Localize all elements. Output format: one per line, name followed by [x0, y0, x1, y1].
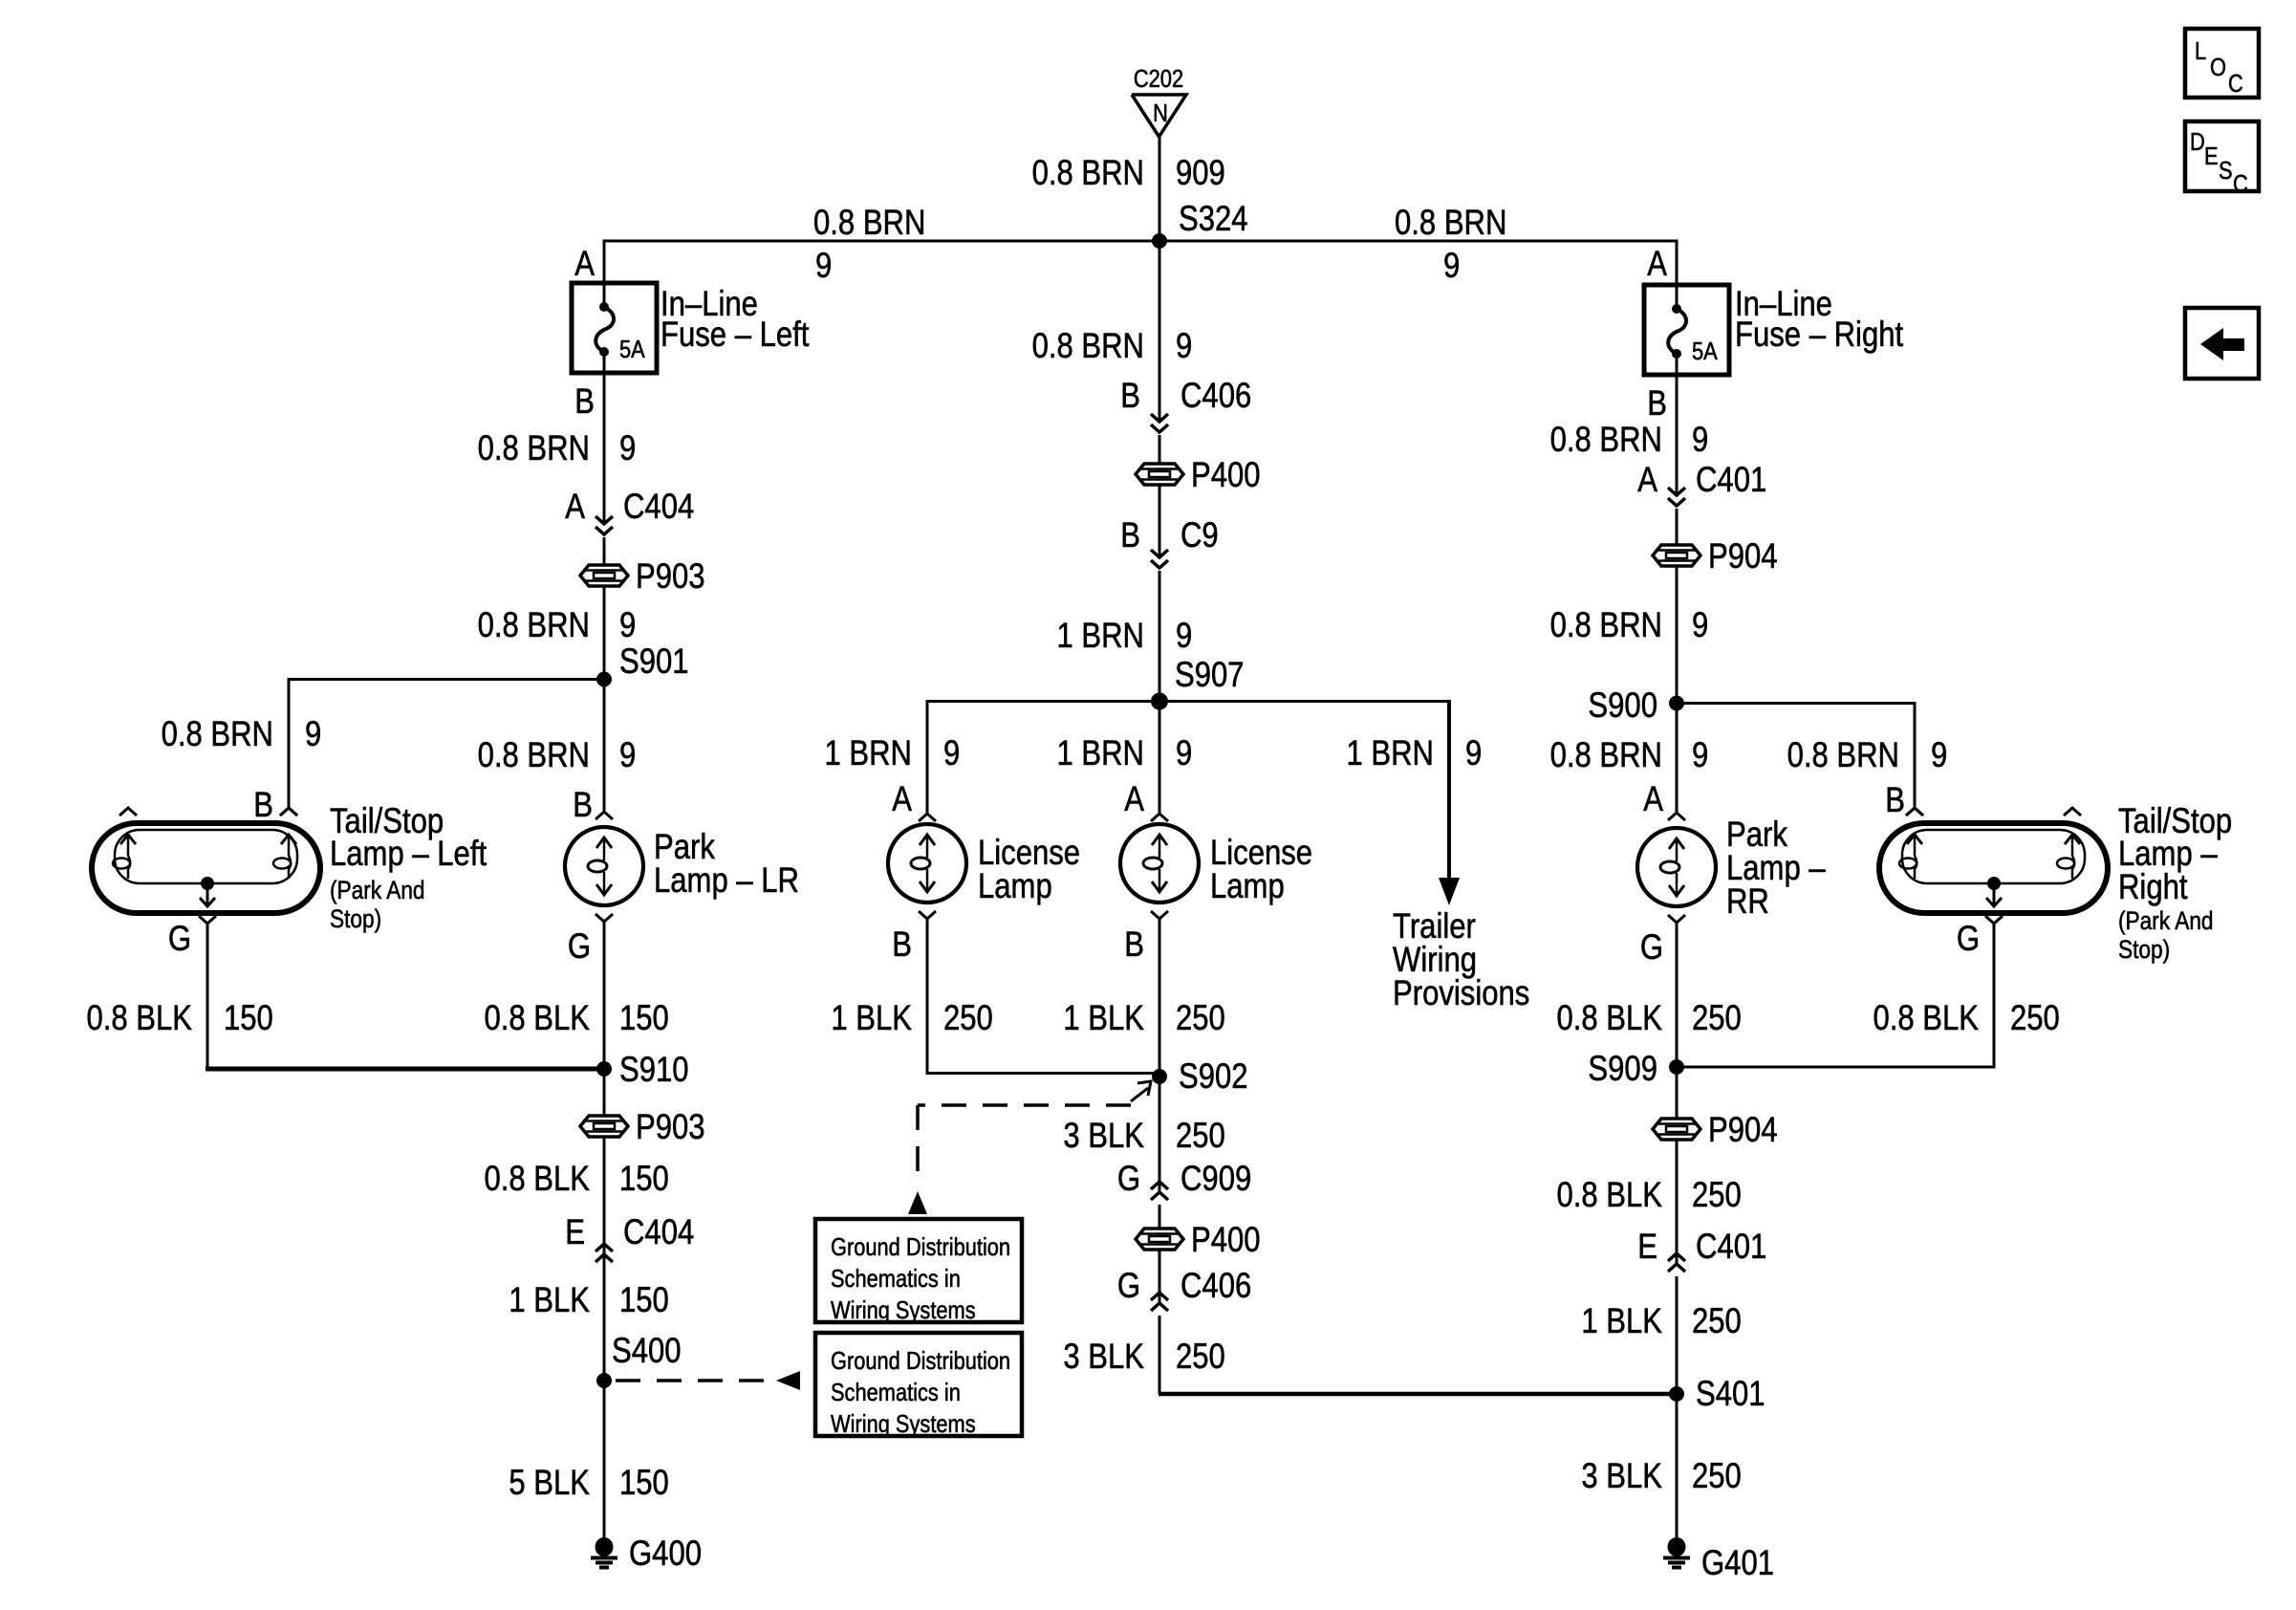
svg-text:1 BRN: 1 BRN: [1346, 734, 1434, 773]
pin B label (tail lamp left): [253, 786, 273, 825]
pin B label (park lamp LR): [573, 786, 593, 825]
connector C401 (down): [1668, 488, 1685, 506]
connector C401 pin A label: [1637, 461, 1766, 500]
wire label 1 BRN 9 (above S907): [1056, 617, 1192, 656]
svg-text:0.8 BRN: 0.8 BRN: [1032, 154, 1144, 193]
svg-text:C401: C401: [1696, 1228, 1766, 1267]
wire label 1 BLK 150: [509, 1281, 668, 1320]
legend box LOC: [2185, 29, 2259, 98]
svg-text:9: 9: [619, 736, 636, 775]
svg-text:C: C: [2228, 70, 2243, 98]
svg-text:C9: C9: [1180, 516, 1219, 555]
svg-text:P904: P904: [1708, 537, 1778, 577]
svg-text:250: 250: [2010, 999, 2060, 1038]
wire label 1 BLK 250 (license lamp 2): [1063, 999, 1224, 1038]
svg-text:250: 250: [1692, 1176, 1742, 1215]
wire bus to in-line fuse left: [603, 241, 606, 283]
svg-text:150: 150: [619, 999, 669, 1038]
svg-text:0.8 BRN: 0.8 BRN: [813, 204, 925, 243]
wire license lamp 2 to S902: [1159, 919, 1161, 1077]
grommet P904 (ground side): [1653, 1111, 1778, 1150]
svg-text:1 BLK: 1 BLK: [1581, 1302, 1662, 1341]
svg-text:A: A: [565, 488, 585, 527]
wire P903 to S901: [603, 586, 606, 681]
svg-text:0.8 BRN: 0.8 BRN: [1550, 736, 1662, 775]
in-line fuse left (5A): [572, 281, 657, 375]
wire label 1 BRN 9 (license lamp 1): [824, 734, 960, 773]
connector C404 pin E label: [565, 1213, 694, 1252]
svg-text:9: 9: [1692, 421, 1708, 460]
svg-text:9: 9: [1176, 327, 1192, 366]
label Trailer Wiring Provisions: [1393, 907, 1529, 1013]
svg-text:9: 9: [1931, 736, 1947, 775]
wire S907 to license lamp 2: [1159, 702, 1161, 814]
svg-text:B: B: [574, 382, 595, 422]
wire S401 to G401: [1676, 1394, 1679, 1538]
wire label 0.8 BRN 909: [1032, 154, 1225, 193]
wire label 1 BLK 250 (license lamp 1): [831, 999, 992, 1038]
pin G label (tail lamp right): [1957, 920, 1980, 959]
component label Park Lamp - LR: [654, 828, 799, 901]
wire C401 to P904: [1676, 509, 1679, 545]
connector C909 (up): [1151, 1182, 1168, 1200]
svg-text:3 BLK: 3 BLK: [1063, 1338, 1144, 1377]
wire S900 to park lamp RR: [1676, 704, 1679, 813]
connector C406 pin G label: [1117, 1267, 1251, 1306]
wire tail lamp left to S910 (ground bus): [206, 1067, 604, 1072]
svg-text:Schematics in: Schematics in: [831, 1265, 961, 1293]
wire S400 to G400: [603, 1381, 606, 1538]
wire P904 to S900: [1676, 566, 1679, 705]
wire C406 to P400: [1159, 435, 1161, 464]
svg-text:9: 9: [305, 715, 321, 754]
svg-text:O: O: [2210, 54, 2226, 81]
svg-text:RR: RR: [1726, 882, 1769, 922]
component label In-Line Fuse - Left: [661, 285, 810, 355]
wire fuse left to C404: [603, 373, 606, 524]
wire label 0.8 BLK 250 (tail lamp right ground): [1873, 999, 2059, 1038]
wire label 0.8 BLK 250 (below P904): [1556, 1176, 1741, 1215]
svg-text:250: 250: [1176, 1338, 1225, 1377]
svg-text:Stop): Stop): [2118, 935, 2170, 964]
wire label 3 BLK 250 (to S401): [1063, 1338, 1224, 1377]
wire label 1 BRN 9 (license lamp 2): [1056, 734, 1192, 773]
pin A label (park lamp RR): [1643, 780, 1663, 819]
pin A label (fuse left): [574, 245, 595, 284]
svg-text:G: G: [1640, 928, 1663, 968]
pin B label (tail lamp right): [1885, 781, 1905, 820]
pin A label (license lamp 2): [1124, 780, 1144, 819]
svg-text:5 BLK: 5 BLK: [509, 1464, 590, 1503]
wire label 0.8 BLK 250 (park lamp RR ground): [1556, 999, 1741, 1038]
splice S907: [1151, 693, 1168, 710]
wire S901 to park lamp LR: [603, 680, 606, 812]
pin B chevron (tail lamp right): [1906, 808, 1923, 816]
svg-text:G401: G401: [1701, 1544, 1774, 1583]
svg-text:S902: S902: [1179, 1057, 1248, 1097]
svg-text:150: 150: [619, 1281, 669, 1320]
connector C401 (ground, up): [1668, 1253, 1685, 1272]
svg-text:9: 9: [815, 247, 832, 286]
svg-text:C404: C404: [623, 1213, 694, 1252]
svg-text:B: B: [1124, 925, 1144, 965]
pin A chevron (park lamp RR): [1668, 813, 1685, 820]
svg-text:Lamp – LR: Lamp – LR: [654, 861, 799, 901]
svg-text:0.8 BRN: 0.8 BRN: [162, 715, 273, 754]
svg-text:L: L: [2195, 37, 2206, 65]
wire label 0.8 BRN 9 (center): [1032, 327, 1193, 366]
svg-text:3 BLK: 3 BLK: [1063, 1117, 1144, 1156]
svg-text:B: B: [573, 786, 593, 825]
wire label 3 BLK 250 (below S902): [1063, 1117, 1224, 1156]
connector C202 (triangle N): [1132, 65, 1186, 137]
svg-text:0.8 BRN: 0.8 BRN: [478, 606, 590, 645]
wire fuse right to C401: [1676, 375, 1679, 495]
license lamp 2 bulb: [1120, 824, 1199, 903]
wire S901 branch to tail lamp left: [289, 678, 604, 808]
svg-text:150: 150: [619, 1464, 669, 1503]
svg-text:B: B: [253, 786, 273, 825]
tail/stop lamp - left: [92, 808, 320, 913]
svg-text:A: A: [574, 245, 595, 284]
connector C9 (down): [1151, 550, 1168, 568]
svg-text:1 BRN: 1 BRN: [1056, 734, 1144, 773]
svg-text:150: 150: [619, 1160, 669, 1199]
wire label 0.8 BRN 9 (above S900): [1550, 606, 1709, 645]
svg-text:P400: P400: [1191, 1221, 1261, 1260]
svg-text:Right: Right: [2118, 868, 2188, 907]
wire label 0.8 BRN 9 (park lamp RR feed): [1550, 736, 1709, 775]
in-line fuse right (5A): [1644, 283, 1729, 377]
component label Park Lamp - RR: [1726, 816, 1826, 922]
wire P903 to C404 ground: [603, 1138, 606, 1267]
grommet P400 (ground side): [1136, 1221, 1261, 1260]
svg-text:G: G: [1117, 1267, 1140, 1306]
pin B chevron (license lamp 2): [1151, 911, 1168, 919]
svg-text:Wiring Systems: Wiring Systems: [831, 1410, 976, 1438]
svg-text:N: N: [1153, 99, 1168, 127]
pin G chevron (park lamp RR): [1668, 915, 1685, 923]
license lamp 1 bulb: [888, 824, 966, 903]
svg-text:250: 250: [1692, 999, 1742, 1038]
svg-text:0.8 BLK: 0.8 BLK: [1556, 1176, 1662, 1215]
svg-text:0.8 BRN: 0.8 BRN: [478, 736, 590, 775]
svg-text:C406: C406: [1180, 1267, 1251, 1306]
svg-text:A: A: [1643, 780, 1663, 819]
splice S910: [596, 1061, 612, 1077]
wire license lamp 1 to S902: [927, 919, 1159, 1075]
svg-text:E: E: [565, 1213, 585, 1252]
splice S400: [596, 1373, 612, 1388]
svg-text:5A: 5A: [1692, 337, 1718, 365]
svg-text:A: A: [892, 780, 912, 819]
node S902 label: [1179, 1057, 1248, 1097]
svg-text:S324: S324: [1179, 200, 1248, 239]
wire S907 bus left: [927, 700, 1159, 813]
svg-text:P400: P400: [1191, 456, 1261, 495]
pin B label (fuse left): [574, 382, 595, 422]
svg-text:Wiring Systems: Wiring Systems: [831, 1296, 976, 1324]
svg-text:G: G: [568, 927, 591, 967]
park lamp RR bulb: [1637, 828, 1716, 906]
wire P400 to C406 ground: [1159, 1250, 1161, 1303]
pin B label (fuse right): [1647, 384, 1667, 424]
pin G chevron (tail lamp left): [199, 916, 216, 924]
svg-text:0.8 BRN: 0.8 BRN: [1787, 736, 1899, 775]
wire S324 to C406: [1159, 241, 1161, 422]
svg-text:1 BRN: 1 BRN: [824, 734, 912, 773]
connector C404 (ground, up): [596, 1244, 613, 1262]
svg-text:B: B: [892, 925, 912, 965]
svg-text:P904: P904: [1708, 1111, 1778, 1150]
svg-text:Ground Distribution: Ground Distribution: [831, 1233, 1010, 1261]
svg-text:A: A: [1124, 780, 1144, 819]
wire park lamp RR to S909: [1676, 923, 1679, 1067]
svg-text:G: G: [168, 920, 191, 959]
park lamp LR bulb: [565, 827, 643, 905]
svg-text:9: 9: [1176, 734, 1192, 773]
wire top bus S324 left: [603, 240, 1160, 243]
wire C9 to S907: [1159, 571, 1161, 703]
svg-text:D: D: [2190, 128, 2205, 156]
grommet P903: [580, 557, 705, 597]
svg-text:1 BLK: 1 BLK: [1063, 999, 1144, 1038]
splice S902: [1152, 1069, 1167, 1084]
svg-text:Stop): Stop): [330, 904, 381, 933]
ground G401: [1663, 1537, 1774, 1583]
svg-text:G: G: [1957, 920, 1980, 959]
svg-text:9: 9: [943, 734, 960, 773]
component label License Lamp (2): [1210, 834, 1312, 906]
pin B chevron (license lamp 1): [919, 911, 936, 919]
wire label 0.8 BLK 150 (tail lamp left ground): [86, 999, 272, 1038]
component label Tail/Stop Lamp - Right: [2118, 802, 2232, 965]
node S907 label: [1175, 656, 1245, 695]
wire label 3 BLK 250 (to G401): [1581, 1457, 1741, 1496]
svg-text:C909: C909: [1180, 1160, 1251, 1199]
svg-text:0.8 BLK: 0.8 BLK: [1873, 999, 1979, 1038]
svg-text:G: G: [1117, 1160, 1140, 1199]
component label Tail/Stop Lamp - Left: [330, 802, 487, 934]
svg-text:S907: S907: [1175, 656, 1245, 695]
node S910 label: [619, 1051, 689, 1090]
svg-text:250: 250: [1176, 999, 1225, 1038]
svg-text:Lamp: Lamp: [978, 867, 1052, 906]
node S901 label: [619, 642, 689, 682]
svg-text:Provisions: Provisions: [1393, 974, 1529, 1013]
dashed reference S902 to note: [908, 1081, 1151, 1214]
wire S909 to P904: [1676, 1067, 1679, 1119]
connector C406 pin B label: [1120, 377, 1251, 416]
connector C404 pin A label: [565, 488, 694, 527]
wire top bus S324 right: [1159, 240, 1679, 243]
pin B chevron (tail lamp left): [280, 808, 297, 816]
svg-text:(Park And: (Park And: [2118, 906, 2214, 935]
svg-text:S400: S400: [612, 1332, 682, 1371]
svg-text:Fuse – Left: Fuse – Left: [661, 315, 810, 355]
wire label 0.8 BRN 9 (top right bus): [1395, 204, 1506, 286]
svg-text:Lamp: Lamp: [1210, 867, 1285, 906]
wire C404 to S400: [603, 1267, 606, 1381]
pin A chevron (license lamp 1): [919, 814, 936, 821]
wire S902 to C909: [1159, 1077, 1161, 1192]
wire label 0.8 BRN 9 (tail lamp left feed): [162, 715, 322, 754]
pin G label (park lamp LR): [568, 927, 591, 967]
pin G chevron (park lamp LR): [596, 914, 613, 922]
pin B label (license lamp 1): [892, 925, 912, 965]
svg-text:Schematics in: Schematics in: [831, 1379, 961, 1406]
svg-text:E: E: [2204, 142, 2219, 170]
svg-text:1 BLK: 1 BLK: [509, 1281, 590, 1320]
svg-text:S901: S901: [619, 642, 689, 682]
wire label 0.8 BLK 150 (park lamp LR ground): [484, 999, 668, 1038]
svg-text:Ground Distribution: Ground Distribution: [831, 1347, 1010, 1375]
svg-text:A: A: [1637, 461, 1657, 500]
splice S901: [596, 672, 612, 687]
svg-text:B: B: [1120, 377, 1140, 416]
svg-text:0.8 BLK: 0.8 BLK: [484, 999, 590, 1038]
svg-text:5A: 5A: [619, 336, 645, 363]
connector C404 (in-line, down): [596, 516, 613, 534]
connector C9 pin B label: [1120, 516, 1218, 555]
svg-text:E: E: [1637, 1228, 1657, 1267]
splice S324: [1152, 233, 1167, 249]
pin G chevron (tail lamp right): [1985, 916, 2003, 924]
svg-text:C406: C406: [1180, 377, 1251, 416]
wire label 0.8 BRN 9 (top left bus): [813, 204, 925, 286]
wire C909 to P400: [1159, 1205, 1161, 1229]
svg-text:0.8 BRN: 0.8 BRN: [1550, 421, 1662, 460]
svg-text:G400: G400: [629, 1534, 702, 1574]
wire label 0.8 BRN 9 (below fuse right): [1550, 421, 1709, 460]
grommet P903 (ground side): [580, 1108, 705, 1147]
svg-text:9: 9: [619, 429, 636, 468]
wire label 0.8 BLK 150 (below P903): [484, 1160, 668, 1199]
wire P904 to C401 ground: [1676, 1140, 1679, 1264]
svg-text:Lamp – Left: Lamp – Left: [330, 835, 487, 874]
wire label 0.8 BRN 9 (above S901): [478, 606, 637, 645]
wire tail lamp left G down: [206, 924, 209, 1067]
svg-text:9: 9: [1692, 606, 1708, 645]
connector C401 pin E label: [1637, 1228, 1766, 1267]
connector C406 (ground, up): [1151, 1293, 1168, 1311]
splice S900: [1669, 696, 1684, 711]
svg-text:0.8 BLK: 0.8 BLK: [484, 1160, 590, 1199]
svg-text:S401: S401: [1696, 1375, 1765, 1414]
wire trailer provisions drop: [1439, 702, 1460, 906]
svg-text:250: 250: [1692, 1302, 1742, 1341]
note box Ground Distribution (S902): [815, 1219, 1022, 1324]
svg-text:3 BLK: 3 BLK: [1581, 1457, 1662, 1496]
pin A chevron (license lamp 2): [1151, 814, 1168, 821]
grommet P904: [1653, 537, 1778, 577]
svg-text:P903: P903: [636, 557, 705, 597]
pin A label (license lamp 1): [892, 780, 912, 819]
dashed reference S400 to note: [616, 1371, 800, 1390]
svg-text:0.8 BRN: 0.8 BRN: [1550, 606, 1662, 645]
svg-text:C202: C202: [1134, 65, 1183, 93]
wire C202 to S324: [1159, 137, 1161, 241]
ground G400: [591, 1534, 702, 1574]
note box Ground Distribution (S400): [815, 1333, 1022, 1438]
svg-text:0.8 BRN: 0.8 BRN: [478, 429, 590, 468]
svg-text:B: B: [1885, 781, 1905, 820]
svg-text:250: 250: [1176, 1117, 1225, 1156]
svg-text:150: 150: [224, 999, 273, 1038]
wire label 1 BRN 9 (trailer): [1346, 734, 1482, 773]
splice S401: [1669, 1386, 1684, 1402]
svg-text:250: 250: [1692, 1457, 1742, 1496]
pin B label (license lamp 2): [1124, 925, 1144, 965]
splice S909: [1669, 1059, 1684, 1075]
svg-text:S: S: [2219, 157, 2233, 185]
pin G label (park lamp RR): [1640, 928, 1663, 968]
svg-text:Fuse – Right: Fuse – Right: [1735, 315, 1904, 355]
wire P400 to C9: [1159, 485, 1161, 557]
node S900 label: [1588, 686, 1657, 726]
svg-text:9: 9: [1465, 734, 1482, 773]
svg-text:1 BLK: 1 BLK: [831, 999, 912, 1038]
wire label 0.8 BRN 9 (below fuse left): [478, 429, 637, 468]
wire C401 to S401: [1676, 1276, 1679, 1394]
svg-text:9: 9: [1176, 617, 1192, 656]
svg-text:909: 909: [1176, 154, 1225, 193]
connector C406 (down): [1151, 414, 1168, 432]
svg-text:S900: S900: [1588, 686, 1657, 726]
wire label 0.8 BRN 9 (park lamp LR feed): [478, 736, 637, 775]
svg-text:250: 250: [943, 999, 993, 1038]
wire S910 to P903: [603, 1069, 606, 1116]
svg-text:S910: S910: [619, 1051, 689, 1090]
component label In-Line Fuse - Right: [1735, 285, 1904, 355]
wire label 0.8 BRN 9 (tail lamp right feed): [1787, 736, 1948, 775]
svg-text:S909: S909: [1588, 1050, 1657, 1089]
wire S907 bus right to trailer: [1159, 700, 1451, 703]
grommet P400: [1136, 456, 1261, 495]
wire label 5 BLK 150: [509, 1464, 668, 1503]
svg-text:C: C: [2233, 170, 2248, 198]
svg-text:A: A: [1647, 245, 1667, 284]
wire tail lamp right G to S909: [1677, 924, 1996, 1067]
connector C909 pin G label: [1117, 1160, 1251, 1199]
legend box DESC: [2185, 121, 2259, 198]
svg-text:C404: C404: [623, 488, 694, 527]
node S401 label: [1696, 1375, 1765, 1414]
node S324 label: [1179, 200, 1248, 239]
wire park lamp LR to S910: [603, 922, 606, 1069]
svg-text:1 BRN: 1 BRN: [1056, 617, 1144, 656]
wire C404 to P903: [603, 537, 606, 565]
svg-text:C401: C401: [1696, 461, 1766, 500]
svg-text:9: 9: [1692, 736, 1708, 775]
wire C406 to S401: [1159, 1316, 1677, 1394]
svg-text:0.8 BRN: 0.8 BRN: [1395, 204, 1506, 243]
svg-text:0.8 BRN: 0.8 BRN: [1032, 327, 1144, 366]
node S400 label: [612, 1332, 682, 1371]
svg-text:P903: P903: [636, 1108, 705, 1147]
svg-text:B: B: [1120, 516, 1140, 555]
pin A label (fuse right): [1647, 245, 1667, 284]
pin B chevron (park lamp LR): [596, 812, 613, 819]
svg-text:(Park And: (Park And: [330, 876, 425, 904]
pin G label (tail lamp left): [168, 920, 191, 959]
wire S900 branch to tail lamp right: [1677, 702, 1915, 808]
svg-text:B: B: [1647, 384, 1667, 424]
component label License Lamp (1): [978, 834, 1080, 906]
svg-text:0.8 BLK: 0.8 BLK: [1556, 999, 1662, 1038]
legend box back-arrow: [2185, 308, 2259, 379]
wire bus to in-line fuse right: [1676, 241, 1679, 285]
